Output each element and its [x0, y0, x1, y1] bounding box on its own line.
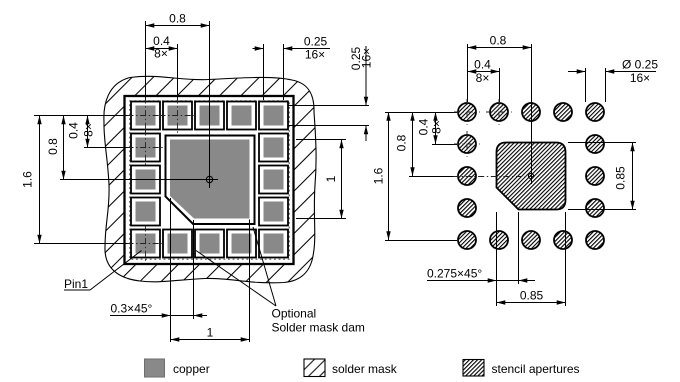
- svg-text:8×: 8×: [430, 120, 444, 134]
- dimension 0.8 left right-view (rotated): [412, 112, 414, 176]
- svg-text:0.4: 0.4: [67, 122, 81, 139]
- dimension 0.275x45 bottom right view: [427, 280, 535, 282]
- pad openings row5: [131, 230, 160, 258]
- extension line col3 to center: [209, 21, 211, 188]
- svg-text:8×: 8×: [82, 123, 96, 137]
- svg-text:1: 1: [324, 175, 338, 182]
- svg-text:stencil apertures: stencil apertures: [492, 362, 580, 376]
- dimension 1 right (rotated): [296, 139, 346, 141]
- circle crosshairs right view (dash-dot): [454, 99, 512, 157]
- central stencil aperture (rounded, chamfered): [497, 143, 566, 210]
- central pad solder mask opening: [166, 136, 255, 225]
- svg-text:Ø 0.25: Ø 0.25: [622, 58, 658, 72]
- dimension 0.4 8x top: [146, 48, 178, 50]
- extension lines bottom (chamfer + central pad): [170, 198, 172, 342]
- svg-text:16×: 16×: [360, 48, 374, 68]
- svg-text:0.275×45°: 0.275×45°: [427, 267, 482, 281]
- dimension D0.25 16x: [568, 71, 586, 73]
- svg-text:1: 1: [207, 326, 214, 340]
- svg-text:0.8: 0.8: [169, 12, 186, 26]
- right view bottom extension lines: [496, 212, 498, 306]
- extension lines col5 pad edges: [263, 44, 265, 100]
- extension line col2 top: [177, 44, 179, 100]
- svg-text:0.8: 0.8: [46, 138, 60, 155]
- perimeter copper pads (gray): [136, 106, 284, 254]
- extension line col1 top: [145, 21, 147, 100]
- dimension 0.8 left (rotated): [63, 116, 65, 180]
- extension line row3 to center: [60, 179, 218, 181]
- dimension 0.4 8x left (rotated): [87, 116, 89, 148]
- center mark left view: [206, 176, 212, 182]
- svg-text:0.4: 0.4: [474, 58, 491, 72]
- pad openings sides rows2-4: [131, 134, 160, 162]
- legend stencil apertures swatch: [463, 360, 484, 377]
- dimension 1 bottom: [171, 339, 250, 341]
- solder mask window (left view): [125, 96, 294, 264]
- dimension 0.85 right (rotated): [568, 142, 636, 144]
- center mark right view: [528, 173, 533, 178]
- svg-text:8×: 8×: [476, 71, 490, 85]
- dimension 0.8 top right view: [468, 47, 532, 49]
- svg-text:0.85: 0.85: [614, 166, 628, 190]
- dimension 1.6 left right-view (rotated): [388, 112, 390, 240]
- stencil aperture circles (hatched): [458, 103, 604, 249]
- extension line row5 left: [34, 243, 131, 245]
- dimension 0.25 16x right side (rotated): [365, 46, 367, 106]
- dimension 0.8 top: [146, 25, 210, 27]
- svg-text:Solder mask dam: Solder mask dam: [272, 321, 365, 335]
- solder mask blob (left view, hatched): [104, 76, 316, 283]
- svg-text:solder mask: solder mask: [332, 362, 398, 376]
- package outline (dashed): [130, 101, 289, 259]
- dimension 0.85 bottom right view: [497, 302, 566, 304]
- svg-text:0.85: 0.85: [520, 289, 544, 303]
- legend copper swatch: [145, 359, 165, 377]
- dimension 0.4 8x top right view: [468, 71, 500, 73]
- pad crosshairs (dash-dot): [128, 98, 196, 262]
- svg-text:1.6: 1.6: [21, 171, 35, 188]
- svg-text:0.8: 0.8: [395, 134, 409, 151]
- perimeter pads: solder mask openings (white with black outline): [131, 102, 288, 258]
- legend solder mask swatch: [304, 359, 325, 377]
- svg-text:16×: 16×: [305, 48, 325, 62]
- svg-text:0.3×45°: 0.3×45°: [111, 302, 153, 316]
- svg-text:8×: 8×: [154, 47, 168, 61]
- svg-text:copper: copper: [173, 362, 210, 376]
- svg-text:16×: 16×: [630, 71, 650, 85]
- svg-text:0.8: 0.8: [490, 34, 507, 48]
- right view extension lines: [385, 112, 457, 114]
- svg-text:1.6: 1.6: [372, 167, 386, 184]
- dimension 1.6 left (rotated): [39, 116, 41, 244]
- extension line row1 left: [34, 115, 131, 117]
- svg-text:0.4: 0.4: [417, 118, 431, 135]
- pad openings row1: [131, 102, 160, 130]
- dimension 0.3x45 bottom: [110, 315, 207, 317]
- svg-text:0.25: 0.25: [304, 35, 328, 49]
- svg-text:Pin1: Pin1: [64, 277, 88, 291]
- svg-text:Optional: Optional: [272, 307, 317, 321]
- extension line row2 left: [84, 147, 131, 149]
- dimension 0.4 8x left right-view (rotated): [435, 112, 437, 144]
- central copper pad (chamfered): [170, 140, 250, 219]
- dimension 0.25 16x top: [253, 48, 264, 50]
